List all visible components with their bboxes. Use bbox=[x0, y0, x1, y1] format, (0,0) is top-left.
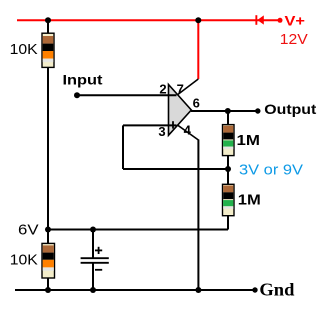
plus sign vertical bar (non-inverting input) bbox=[172, 121, 174, 128]
junction: left rail at V+ rail bbox=[45, 17, 51, 23]
junction: capacitor at 6V wire bbox=[90, 227, 96, 233]
node: V+ terminal dot bbox=[278, 18, 283, 23]
svg-text:V+: V+ bbox=[285, 12, 306, 28]
node: Input terminal dot bbox=[74, 92, 80, 98]
svg-text:3V or 9V: 3V or 9V bbox=[239, 162, 303, 179]
svg-text:3: 3 bbox=[158, 124, 165, 139]
node: Output terminal dot bbox=[255, 108, 260, 113]
svg-text:7: 7 bbox=[177, 81, 184, 96]
svg-text:Gnd: Gnd bbox=[259, 280, 294, 300]
svg-text:Output: Output bbox=[264, 101, 316, 117]
wire: input to pin 2 (extends inside op-amp as minus sign) bbox=[77, 94, 177, 96]
V+ power rail bbox=[17, 19, 280, 21]
node: Gnd terminal dot bbox=[252, 287, 257, 292]
svg-text:1M: 1M bbox=[237, 132, 261, 149]
svg-text:6: 6 bbox=[193, 96, 200, 111]
svg-text:2: 2 bbox=[159, 81, 166, 96]
wire: red drop from rail to pin 7 bbox=[197, 20, 199, 79]
ground rail bbox=[15, 289, 255, 291]
diode D1 bbox=[255, 15, 263, 25]
capacitor C1 plates bbox=[81, 257, 109, 259]
svg-text:10K: 10K bbox=[10, 251, 38, 268]
wire: left rail vertical bbox=[47, 20, 49, 290]
wire: capacitor bottom lead bbox=[92, 264, 94, 291]
node: output junction to divider bbox=[225, 108, 231, 114]
wire: pin 3 (extends inside op-amp as part of plus sign) bbox=[123, 124, 177, 126]
junction: divider midpoint bbox=[225, 166, 231, 172]
wire: pin 4 vertical to ground bbox=[197, 140, 199, 291]
wire: pin 6 output bbox=[191, 110, 258, 112]
wire: 6V node horizontal bbox=[48, 229, 228, 231]
wire: divider column bbox=[227, 111, 229, 230]
resistor R3 1M (lower right) bbox=[223, 184, 235, 215]
svg-text:4: 4 bbox=[184, 123, 192, 138]
svg-text:12V: 12V bbox=[280, 31, 308, 48]
junction: left rail at ground bbox=[45, 287, 51, 293]
capacitor minus sign bbox=[95, 269, 102, 271]
junction: capacitor at ground bbox=[90, 287, 96, 293]
wire: feedback horizontal to divider midpoint bbox=[123, 168, 228, 170]
resistor R2 1M (upper right) bbox=[223, 125, 235, 156]
resistor R1 10K (top left) bbox=[42, 33, 54, 67]
op-amp U1 bbox=[169, 85, 192, 136]
svg-text:6V: 6V bbox=[18, 221, 39, 238]
wire: capacitor top lead bbox=[92, 230, 94, 258]
svg-text:10K: 10K bbox=[10, 41, 38, 58]
capacitor plus sign bbox=[95, 249, 102, 251]
svg-text:1M: 1M bbox=[238, 192, 261, 209]
junction: 6V node bbox=[45, 227, 51, 233]
wire: feedback vertical bbox=[122, 125, 124, 169]
svg-text:Input: Input bbox=[63, 72, 103, 88]
wire: pin 7 diagonal bbox=[178, 79, 199, 95]
junction: pin-7 drop at V+ rail bbox=[195, 17, 201, 23]
wire: pin 4 diagonal bbox=[178, 125, 199, 140]
junction: pin 4 at ground bbox=[195, 287, 201, 293]
resistor R4 10K (bottom left) bbox=[42, 243, 55, 278]
